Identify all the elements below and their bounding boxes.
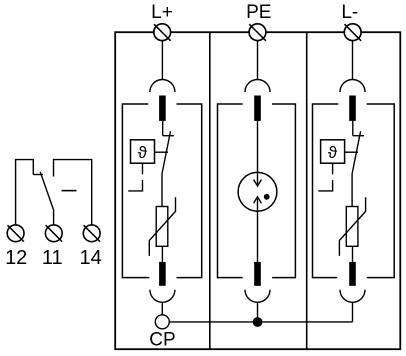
svg-text:CP: CP [149, 330, 175, 351]
svg-text:L+: L+ [151, 2, 173, 23]
svg-text:PE: PE [246, 2, 271, 23]
svg-text:11: 11 [42, 247, 63, 269]
svg-text:14: 14 [79, 247, 101, 269]
svg-text:ϑ: ϑ [328, 143, 338, 162]
svg-text:ϑ: ϑ [138, 143, 148, 162]
svg-text:12: 12 [5, 247, 27, 269]
svg-text:L-: L- [341, 2, 358, 23]
